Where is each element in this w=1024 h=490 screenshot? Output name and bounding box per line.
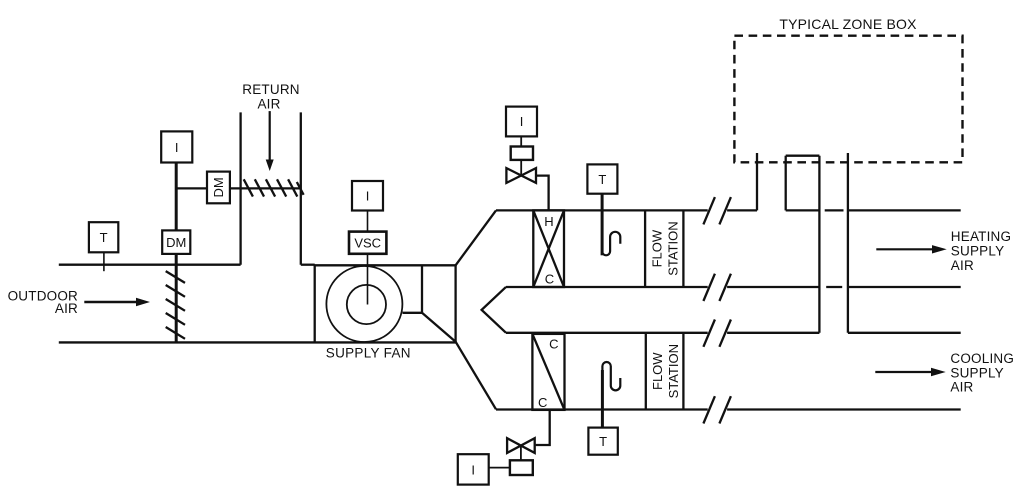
- arrow: outdoor air flow: [84, 298, 150, 306]
- wire: valve to actuator: [520, 445, 522, 460]
- fan outlet diagonal: [422, 313, 456, 342]
- wire: hot takeoff left wall: [756, 153, 758, 210]
- svg-text:STATION: STATION: [666, 344, 681, 398]
- wire: main bottom duct line: [59, 341, 456, 343]
- svg-text:SUPPLY FAN: SUPPLY FAN: [326, 346, 411, 361]
- wire: transition top diagonal: [456, 210, 496, 265]
- svg-text:HEATING: HEATING: [951, 229, 1011, 244]
- svg-text:TYPICAL ZONE BOX: TYPICAL ZONE BOX: [779, 16, 917, 32]
- sensor T1 stem: [103, 252, 105, 271]
- label OUTDOOR AIR: [8, 289, 78, 317]
- sensor T3 stem: [601, 410, 604, 428]
- arrow: return air flow: [266, 111, 274, 171]
- svg-text:FLOW: FLOW: [650, 352, 665, 390]
- wire: VSC stem: [367, 211, 369, 305]
- controller box I2: [352, 181, 383, 211]
- arrow: cooling supply: [875, 368, 945, 376]
- splitter chevron: [482, 287, 506, 333]
- flow station FS2 (cold deck): [646, 333, 684, 410]
- svg-text:I: I: [366, 189, 370, 204]
- controller box I4: [458, 454, 489, 484]
- break marks hot bottom: [703, 274, 731, 301]
- svg-text:H: H: [544, 214, 553, 229]
- svg-text:T: T: [598, 172, 606, 187]
- label FLOW STATION (cold): [650, 344, 681, 398]
- wire: actuator to I4: [489, 467, 510, 469]
- svg-text:DM: DM: [211, 177, 226, 197]
- wire: cold takeoff right wall: [847, 153, 849, 333]
- fan cabinet right wall: [454, 265, 456, 342]
- wire: mixing plenum top segment: [301, 264, 315, 266]
- label RETURN AIR: [242, 82, 299, 111]
- svg-text:C: C: [545, 272, 554, 287]
- svg-text:AIR: AIR: [257, 97, 280, 112]
- fan cabinet left wall: [314, 265, 316, 342]
- wire: return duct left wall: [239, 112, 241, 264]
- damper motor DM1 (outdoor): [162, 230, 190, 254]
- wire: cold deck top line: [506, 332, 708, 334]
- controller box I1: [161, 131, 192, 162]
- fan scroll outer circle: [326, 266, 402, 342]
- break marks cold bottom: [703, 396, 731, 423]
- sensor box T3 (cold deck): [588, 428, 617, 455]
- valve V1 body: [506, 168, 536, 183]
- wire: cold takeoff left wall: [818, 156, 820, 333]
- fan outlet inner wall: [421, 265, 423, 313]
- svg-text:AIR: AIR: [55, 301, 78, 316]
- svg-text:T: T: [100, 230, 108, 245]
- wire: stem to DM rotated box: [176, 187, 301, 189]
- controller box I3: [506, 107, 537, 137]
- wire: transition bottom diagonal: [456, 342, 496, 410]
- svg-text:DM: DM: [166, 235, 186, 250]
- sensor T2 hook element: [602, 232, 620, 256]
- cooling coil CC1 box: [532, 334, 564, 410]
- label FLOW STATION (hot): [650, 221, 681, 275]
- svg-text:T: T: [599, 434, 607, 449]
- wire: actuator to valve: [520, 160, 522, 176]
- svg-text:SUPPLY: SUPPLY: [951, 244, 1004, 259]
- svg-text:SUPPLY: SUPPLY: [950, 365, 1003, 380]
- svg-text:RETURN: RETURN: [242, 82, 299, 97]
- arrow: heating supply: [876, 245, 946, 253]
- sensor T3 hook element: [602, 362, 620, 409]
- valve actuator A2: [510, 460, 533, 475]
- damper motor DM2 (return, rotated): [207, 172, 230, 204]
- fan outlet tangent: [403, 312, 423, 314]
- sensor box T2 (hot deck): [587, 164, 617, 193]
- wire: return duct right wall: [300, 112, 302, 264]
- VSC box: [349, 232, 386, 254]
- break marks hot top: [703, 197, 731, 224]
- svg-text:I: I: [175, 140, 179, 155]
- svg-text:FLOW: FLOW: [650, 229, 665, 267]
- svg-text:C: C: [538, 395, 547, 410]
- wire: cold coil to valve: [536, 411, 550, 445]
- label COOLING SUPPLY AIR: [950, 351, 1014, 395]
- damper D1 hatch ticks: [166, 271, 185, 339]
- valve actuator A1: [511, 147, 533, 160]
- fan cabinet top: [314, 264, 456, 266]
- wire: cold deck bottom line: [496, 408, 708, 410]
- svg-text:AIR: AIR: [950, 380, 973, 395]
- svg-text:AIR: AIR: [951, 258, 974, 273]
- wire: I3 to actuator: [520, 136, 522, 146]
- wire: hot takeoff right wall: [785, 156, 787, 211]
- heating coil HC1 box: [533, 210, 564, 287]
- damper D2 (return air) hatch ticks: [244, 179, 304, 196]
- svg-text:VSC: VSC: [354, 236, 381, 251]
- fan impeller inner circle: [347, 285, 386, 324]
- break marks cold top: [703, 320, 731, 347]
- damper D1 (outdoor air) thick stem: [175, 163, 178, 343]
- wire: hot top line under box: [786, 209, 820, 211]
- wire: hot deck top line: [496, 209, 708, 211]
- flow station FS1 (hot deck): [645, 210, 683, 287]
- wire: takeoff top bridge: [786, 155, 820, 157]
- svg-text:C: C: [549, 337, 558, 352]
- svg-text:STATION: STATION: [666, 221, 681, 275]
- sensor box T1: [89, 222, 118, 252]
- svg-text:COOLING: COOLING: [950, 351, 1014, 366]
- svg-text:I: I: [520, 114, 524, 129]
- valve V2 body: [507, 438, 535, 453]
- svg-text:I: I: [471, 462, 475, 477]
- wire: outdoor duct top line: [59, 264, 241, 266]
- wire: valve to hot coil: [536, 176, 549, 211]
- wire: hot deck bottom line: [506, 286, 708, 288]
- zone box dashed outline: [734, 36, 962, 163]
- label HEATING SUPPLY AIR: [951, 229, 1011, 273]
- sensor T2 stem: [601, 194, 604, 256]
